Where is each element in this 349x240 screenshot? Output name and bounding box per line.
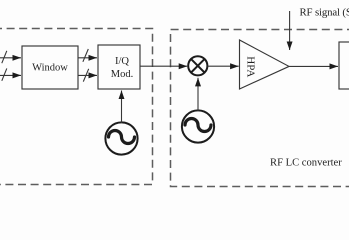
wire mixer to HPA: [208, 65, 239, 67]
block Window: [22, 46, 78, 89]
wire RF LO to mixer: [197, 78, 199, 111]
wire Window to I/Q Mod (Q): [78, 74, 97, 76]
wire input I: [0, 57, 21, 59]
svg-text:HPA: HPA: [245, 56, 257, 77]
bus slash input Q: [2, 68, 7, 80]
wire LO to I/Q Mod: [121, 91, 123, 123]
svg-text:Window: Window: [32, 63, 68, 74]
bus slash input I: [2, 51, 7, 63]
RF LC converter dashed enclosure (right): [171, 30, 349, 187]
svg-text:RF LC converter: RF LC converter: [270, 157, 342, 168]
wire HPA to filter: [289, 65, 338, 67]
svg-text:I/Q: I/Q: [115, 56, 129, 67]
oscillator (baseband LO): [105, 122, 137, 154]
mixer: [188, 56, 207, 75]
amplifier HPA: [240, 40, 290, 89]
baseband dashed enclosure (left): [0, 29, 153, 185]
svg-text:RF signal (S: RF signal (S: [300, 6, 349, 18]
svg-text:Mod.: Mod.: [111, 69, 133, 80]
wire Window to I/Q Mod (I): [78, 57, 97, 59]
wire I/Q Mod to mixer: [140, 65, 187, 67]
block I/Q Mod.: [98, 45, 140, 89]
bus slash Q: [83, 69, 88, 82]
RF signal arrow: [289, 11, 291, 50]
block output filter (clipped at edge): [339, 42, 349, 89]
oscillator (RF LO): [182, 110, 214, 142]
bus slash I: [83, 49, 88, 62]
wire input Q: [0, 74, 21, 76]
